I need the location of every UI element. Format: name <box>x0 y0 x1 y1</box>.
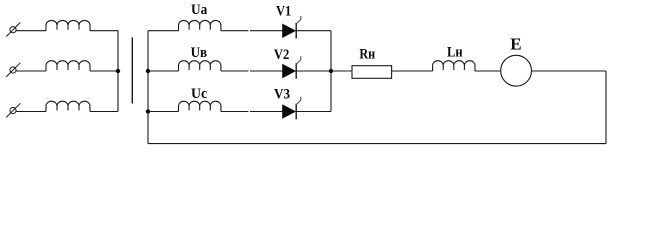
svg-text:Lн: Lн <box>447 44 463 60</box>
svg-text:Uв: Uв <box>191 45 208 61</box>
svg-text:Ua: Ua <box>191 2 208 18</box>
svg-text:Uc: Uc <box>191 86 208 102</box>
svg-text:Rн: Rн <box>359 46 375 62</box>
svg-text:V1: V1 <box>276 4 291 20</box>
svg-text:V3: V3 <box>274 86 290 102</box>
svg-text:V2: V2 <box>274 47 289 63</box>
svg-text:E: E <box>510 35 521 54</box>
